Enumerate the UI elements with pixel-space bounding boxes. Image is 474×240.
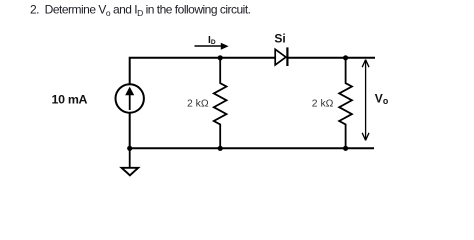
wire: R1 bottom to R2 bottom (220, 147, 345, 149)
resistor R1 (214, 58, 227, 149)
svg-text:2. Determine Vo and ID in the: 2. Determine Vo and ID in the following … (30, 2, 251, 17)
svg-text:2 kΩ: 2 kΩ (187, 98, 209, 109)
wire: node A to diode anode (220, 57, 276, 59)
junction node B (top of R2) (343, 55, 348, 60)
wire: diode cathode to node B (288, 57, 346, 59)
junction: bottom of R1 (218, 146, 223, 151)
svg-text:Vo: Vo (375, 91, 389, 106)
svg-text:Si: Si (274, 32, 285, 46)
wire: node B to top-right end (346, 57, 375, 59)
current source I1 (116, 84, 144, 112)
Vo measurement double arrow (362, 60, 369, 141)
svg-text:ID: ID (208, 35, 216, 46)
wire: current source top lead up and right to node A (130, 58, 221, 85)
junction: bottom of R2 (343, 146, 348, 151)
junction node A (top of R1) (218, 55, 223, 60)
junction: ground tap (127, 146, 132, 151)
wire: R2 bottom to bottom-right end (346, 147, 374, 149)
wire: current source bottom lead (129, 112, 131, 148)
current arrow ID (195, 43, 229, 50)
ground (122, 148, 139, 175)
diode D1 Si (275, 47, 287, 66)
svg-text:2 kΩ: 2 kΩ (312, 98, 334, 109)
svg-text:10 mA: 10 mA (52, 93, 88, 107)
wire: bottom ground node to resistor R1 bottom (130, 147, 221, 149)
resistor R2 (339, 58, 352, 149)
